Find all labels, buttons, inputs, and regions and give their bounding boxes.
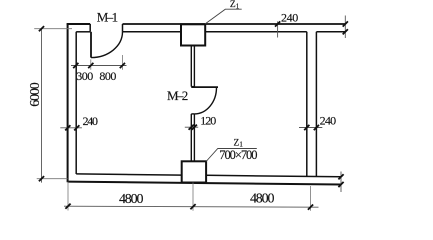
wall: top wall outer line right of door M-1 (doubles as dim line to wall end): [123, 23, 346, 25]
svg-text:6000: 6000: [28, 82, 43, 107]
wall: left wall inner line: [75, 32, 77, 174]
extension line top-right 240 start: [277, 21, 279, 37]
wall: door M-2 bottom jamb cap: [191, 113, 194, 115]
wall: door M-1 left jamb: [89, 24, 91, 32]
tick bottom-right wall end outer: [338, 182, 343, 187]
wall: top wall inner line segment left wall to door: [76, 31, 90, 33]
tick bottom dim left: [65, 204, 70, 209]
svg-text:4800: 4800: [119, 192, 144, 207]
tick top-right 240 left: [275, 21, 280, 26]
extension line below interior wall: [192, 183, 194, 211]
wall: top wall inner line column to right wall: [205, 31, 307, 33]
svg-text:800: 800: [99, 69, 116, 83]
wall end line bottom-right: [340, 172, 342, 193]
tick top-right wall end outer: [343, 21, 348, 26]
door M-2 leaf: [191, 86, 218, 88]
dimension right 240 line: [299, 127, 322, 129]
svg-text:240: 240: [281, 11, 298, 25]
wall: left wall outer line: [67, 23, 69, 182]
wall: bottom wall inner line right segment to wall end: [206, 175, 341, 177]
wall: door M-2 top jamb cap: [191, 86, 194, 88]
tick 800 right: [120, 63, 125, 68]
wall: bottom wall inner line left segment: [76, 174, 182, 175]
wall end line top-right: [344, 16, 346, 39]
wall: right wall outer line: [315, 32, 317, 177]
door M-1 leaf: [90, 32, 92, 58]
svg-text:700×700: 700×700: [219, 148, 257, 162]
leader line for top column label Z1: [205, 9, 242, 24]
extension line below left wall: [67, 182, 69, 211]
tick bottom-right wall end inner: [338, 174, 343, 179]
wall: top wall inner line door to column Z1: [123, 31, 182, 33]
wall: top wall outer line left of door M-1: [67, 23, 91, 25]
leader line for bottom column label Z1 700x700: [206, 149, 257, 162]
tick bottom dim right: [308, 205, 313, 210]
wall: interior partition wall right line lower segment: [193, 114, 195, 161]
tick right 240 outer: [314, 125, 319, 130]
dimension 120 line at door M-2: [185, 126, 198, 128]
svg-text:240: 240: [320, 114, 337, 128]
tick 6000 bottom: [39, 176, 44, 181]
door M-1 swing arc: [91, 32, 123, 58]
svg-text:M–1: M–1: [97, 10, 118, 25]
svg-text:4800: 4800: [250, 192, 275, 207]
tick right 240 inner: [304, 125, 309, 130]
wall: top wall inner line right wall to wall end: [316, 31, 345, 33]
svg-text:Z1: Z1: [230, 0, 240, 10]
column Z1 top: [181, 24, 205, 45]
wall: right wall inner line: [306, 32, 308, 177]
svg-text:120: 120: [200, 114, 216, 128]
extension line below right wall: [310, 186, 312, 211]
dimension 6000 line: [41, 29, 43, 183]
dimension 300/800 line under door M-1: [71, 65, 127, 67]
wall: interior partition wall left line lower segment: [190, 114, 192, 161]
dimension 6000 top extension line: [34, 28, 72, 30]
column Z1 bottom: [182, 161, 206, 182]
dimension left 240 line: [60, 127, 82, 129]
svg-text:240: 240: [83, 114, 99, 128]
tick 300 left: [73, 63, 78, 68]
extension line under door M-1 hinge: [90, 59, 92, 69]
tick 6000 top: [39, 26, 44, 31]
door M-2 swing arc: [194, 88, 216, 114]
tick 120 right: [192, 125, 197, 130]
dimension bottom line 4800+4800: [64, 206, 319, 207]
wall: interior partition wall left line upper segment: [190, 46, 192, 87]
tick left 240 inner: [74, 125, 79, 130]
wall: bottom wall outer line: [68, 182, 341, 185]
svg-text:M–2: M–2: [167, 88, 188, 103]
extension line under door M-1 right jamb: [121, 55, 123, 70]
tick 300/800 middle: [88, 63, 93, 68]
tick top-right wall end inner: [343, 29, 348, 34]
svg-text:300: 300: [76, 69, 93, 83]
tick left 240 outer: [65, 125, 70, 130]
tick 120 left: [189, 125, 194, 130]
dimension 6000 bottom extension line: [37, 178, 68, 180]
tick bottom dim middle: [190, 204, 195, 209]
wall: interior partition wall right line upper segment: [193, 46, 195, 87]
wall: door M-1 right jamb: [122, 24, 124, 32]
